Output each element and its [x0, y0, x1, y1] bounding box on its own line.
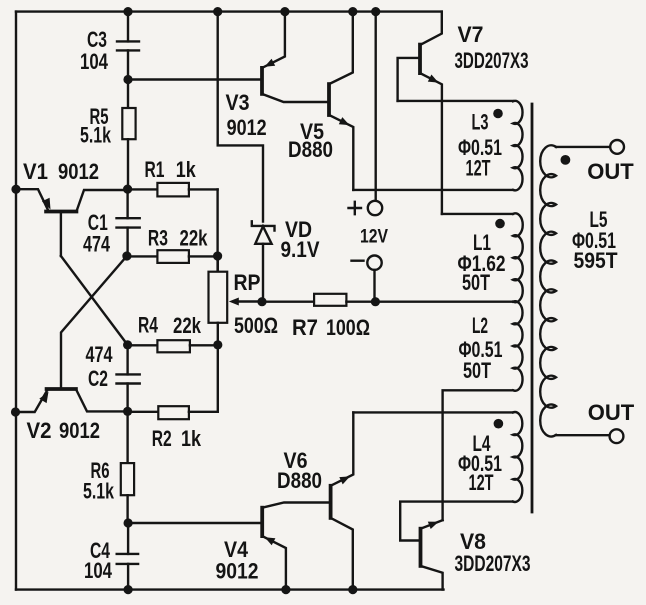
- svg-text:3DD207X3: 3DD207X3: [455, 48, 529, 73]
- node top rail x217.7: [213, 7, 222, 16]
- node top rail x128: [123, 7, 132, 16]
- wire L2 bottom lead to V8 emitter: [443, 390, 513, 520]
- svg-text:5.1k: 5.1k: [80, 123, 112, 148]
- svg-text:22k: 22k: [180, 226, 209, 251]
- inductor L2 winding: [459, 301, 523, 390]
- capacitor C4: [84, 523, 138, 590]
- wire cross-couple V1 base to R4 node: [61, 256, 128, 345]
- svg-text:104: 104: [84, 558, 113, 583]
- svg-text:OUT: OUT: [587, 159, 634, 184]
- node zener-RP-R7 junction: [257, 297, 266, 306]
- resistor R6: [83, 411, 134, 523]
- svg-text:595T: 595T: [574, 248, 618, 273]
- svg-text:9.1V: 9.1V: [281, 237, 320, 262]
- svg-text:100Ω: 100Ω: [326, 315, 370, 340]
- transistor V8 3DD207X3: [421, 520, 531, 589]
- svg-text:1k: 1k: [176, 157, 197, 182]
- wire zener feed from top rail: [218, 12, 263, 222]
- wire L1 top lead: [442, 213, 513, 215]
- node R3 right junction: [213, 251, 222, 260]
- svg-text:9012: 9012: [58, 159, 99, 184]
- svg-text:R4: R4: [138, 312, 159, 337]
- battery plus terminal: [349, 12, 383, 216]
- potentiometer RP 500: [209, 256, 279, 345]
- svg-text:R7: R7: [292, 315, 318, 340]
- terminal OUT top: [610, 140, 624, 154]
- transistor V7 3DD207X3: [398, 12, 529, 214]
- wire bottom rail: [16, 588, 444, 590]
- transistor V6 D880: [277, 412, 353, 589]
- svg-text:C2: C2: [88, 366, 108, 391]
- svg-text:50T: 50T: [463, 358, 491, 383]
- transistor V5 D880: [288, 12, 353, 190]
- node C4 on bottom rail: [124, 585, 133, 594]
- node R2 left junction: [123, 407, 132, 416]
- inductor L4 winding: [458, 412, 522, 502]
- svg-text:D880: D880: [288, 137, 333, 162]
- capacitor C1: [83, 189, 140, 256]
- svg-text:50T: 50T: [462, 270, 490, 295]
- resistor R3: [127, 226, 218, 263]
- node top rail x284.9: [280, 7, 289, 16]
- svg-text:V3: V3: [226, 90, 250, 115]
- node top rail x375.7: [371, 7, 380, 16]
- inductor L3 winding: [458, 101, 523, 190]
- wire left rail: [15, 12, 17, 590]
- capacitor C2: [86, 342, 140, 411]
- wire L5 bottom lead: [556, 434, 610, 436]
- wire L3 top lead: [398, 100, 513, 102]
- svg-text:22k: 22k: [173, 313, 202, 338]
- svg-text:1k: 1k: [181, 426, 202, 451]
- wire L4 bottom lead to V8 base: [400, 502, 513, 541]
- svg-text:9012: 9012: [216, 559, 259, 584]
- node V1 emitter on left rail: [11, 185, 20, 194]
- svg-text:3DD207X3: 3DD207X3: [455, 551, 531, 576]
- node R4-C2 junction: [123, 340, 132, 349]
- svg-text:12T: 12T: [466, 156, 491, 181]
- wire cross-couple R3 node to V2 base: [61, 256, 127, 389]
- svg-text:9012: 9012: [59, 418, 100, 443]
- svg-text:R2: R2: [152, 426, 172, 451]
- node V2 emitter on left rail: [11, 407, 20, 416]
- node V4 emitter on bottom rail: [281, 585, 290, 594]
- svg-text:R3: R3: [148, 226, 168, 251]
- svg-text:9012: 9012: [227, 115, 267, 140]
- svg-text:R1: R1: [145, 157, 165, 182]
- node R6-C4 junction: [124, 518, 133, 527]
- transistor V3 9012: [226, 12, 330, 140]
- svg-text:L2: L2: [472, 313, 488, 338]
- node V6 collector on bottom rail: [348, 585, 357, 594]
- battery minus terminal: [352, 256, 382, 302]
- zener diode VD 9.1V: [252, 217, 320, 302]
- resistor R5: [80, 104, 136, 189]
- wire L5 top lead: [556, 146, 610, 148]
- svg-text:5.1k: 5.1k: [83, 479, 115, 504]
- svg-text:L3: L3: [472, 110, 489, 135]
- svg-text:V1: V1: [23, 159, 48, 184]
- svg-text:12V: 12V: [360, 227, 388, 248]
- node R3 left junction: [122, 251, 131, 260]
- wire V5 emitter to L3 bottom: [353, 189, 513, 191]
- transistor V1 9012: [16, 159, 128, 256]
- wire V4 base line: [128, 522, 262, 524]
- inductor L1 winding: [458, 213, 523, 302]
- resistor R7 100: [262, 294, 375, 340]
- capacitor C3: [80, 12, 139, 108]
- resistor R1: [128, 157, 218, 196]
- inductor L5 secondary winding: [540, 145, 618, 436]
- resistor R2: [128, 345, 218, 451]
- terminal OUT bottom: [610, 429, 624, 443]
- node R4 right junction: [213, 340, 222, 349]
- transistor V2 9012: [16, 389, 128, 443]
- svg-text:D880: D880: [277, 468, 322, 493]
- node top rail x352.8: [348, 7, 357, 16]
- wire center tap line to transformer: [375, 301, 513, 303]
- node R7 right / minus tap junction: [371, 297, 380, 306]
- transistor V4 9012: [216, 503, 331, 590]
- svg-text:V7: V7: [458, 22, 484, 47]
- svg-text:474: 474: [86, 342, 114, 367]
- node C3-R5 junction: [123, 75, 132, 84]
- resistor R4: [128, 312, 218, 352]
- svg-text:RP: RP: [234, 270, 261, 295]
- svg-text:12T: 12T: [469, 470, 494, 495]
- wire L4 top lead: [353, 411, 513, 413]
- wire R1 right to RP top vertical: [216, 189, 218, 271]
- svg-text:500Ω: 500Ω: [234, 313, 278, 338]
- wire top rail: [16, 10, 442, 12]
- node R1-C1 junction: [123, 185, 132, 194]
- svg-text:OUT: OUT: [588, 400, 635, 425]
- svg-text:V2: V2: [27, 418, 52, 443]
- wire V3 base line: [128, 78, 262, 80]
- svg-text:104: 104: [80, 49, 109, 74]
- svg-text:474: 474: [83, 232, 111, 257]
- transformer core: [531, 104, 534, 512]
